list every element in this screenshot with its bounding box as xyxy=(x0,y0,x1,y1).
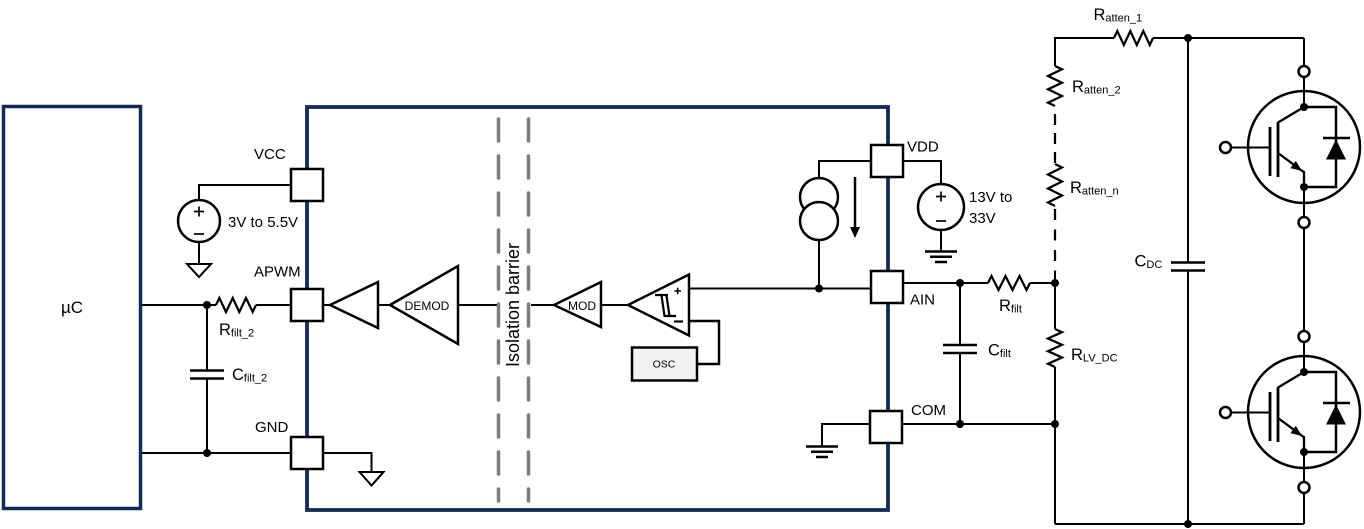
current source I1 xyxy=(819,161,871,178)
node dot H xyxy=(1051,279,1059,287)
pin APWM xyxy=(291,289,323,321)
ground triangle G2 xyxy=(360,472,384,486)
top rail wire xyxy=(1055,38,1114,66)
dashed wire segment xyxy=(1054,106,1056,164)
wire R_LV_DC to bottom rail xyxy=(1054,367,1056,524)
microcontroller box uC xyxy=(4,107,141,509)
svg-text:Ratten_n: Ratten_n xyxy=(1070,179,1119,198)
svg-text:Rfilt_2: Rfilt_2 xyxy=(219,321,254,340)
svg-text:VCC: VCC xyxy=(254,146,286,163)
voltage source V2 13V to 33V xyxy=(918,184,964,230)
svg-text:CDC: CDC xyxy=(1135,253,1163,272)
svg-text:DEMOD: DEMOD xyxy=(405,299,450,313)
comparator U1 xyxy=(628,275,689,336)
MOD amplifier xyxy=(554,282,601,327)
ground bars G3 xyxy=(925,252,957,263)
wire IGBT2 to bottom rail xyxy=(1303,493,1305,524)
wire barrier to MOD xyxy=(531,304,554,306)
plus input mark xyxy=(675,288,682,295)
wire DEMOD to barrier xyxy=(458,304,497,306)
svg-text:3V to 5.5V: 3V to 5.5V xyxy=(228,214,298,231)
resistor R_filt xyxy=(988,276,1030,290)
minus input mark xyxy=(674,320,683,322)
ground bars G4 xyxy=(806,447,838,458)
IGBT Q1 xyxy=(1220,66,1360,228)
voltage source V1 3V to 5.5V xyxy=(178,200,220,242)
node dot F xyxy=(1051,420,1059,428)
IGBT Q2 xyxy=(1220,331,1360,493)
svg-text:Isolation barrier: Isolation barrier xyxy=(503,243,523,367)
svg-text:Rfilt: Rfilt xyxy=(999,297,1022,316)
node dot B xyxy=(203,449,211,457)
node dot A xyxy=(203,301,211,309)
isolation barrier dashed line right xyxy=(527,119,531,501)
node dot D xyxy=(956,279,964,287)
wire GND pin to ground xyxy=(323,453,372,472)
resistor R_LV_DC xyxy=(1048,329,1062,367)
svg-text:MOD: MOD xyxy=(568,299,596,313)
DEMOD amplifier xyxy=(390,266,458,344)
pin GND xyxy=(291,437,323,469)
bottom rail wire xyxy=(1055,523,1304,525)
isolation barrier dashed line left xyxy=(497,119,501,501)
resistor R_atten_1 xyxy=(1114,31,1153,45)
svg-text:GND: GND xyxy=(255,419,289,436)
svg-text:APWM: APWM xyxy=(254,264,301,281)
resistor R_filt_2 xyxy=(216,298,256,312)
OSC block xyxy=(632,348,697,381)
pin VDD xyxy=(871,145,903,177)
wire between IGBTs xyxy=(1303,228,1305,331)
dashed wire segment 2 xyxy=(1054,206,1056,272)
capacitor C_filt xyxy=(959,283,961,345)
isolated amplifier IC box xyxy=(307,107,888,510)
svg-text:COM: COM xyxy=(911,402,946,419)
node dot G xyxy=(1184,34,1192,42)
wire comparator plus to AIN xyxy=(689,288,871,290)
wire R_filt to divider rail xyxy=(1030,282,1055,284)
wire VDD pin to source V2 xyxy=(903,161,941,184)
svg-text:VDD: VDD xyxy=(907,139,939,156)
wire VCC source top xyxy=(199,185,293,202)
wire comparator minus to OSC xyxy=(689,321,719,364)
node dot C xyxy=(815,285,823,293)
ground triangle G1 xyxy=(187,264,211,277)
svg-text:AIN: AIN xyxy=(910,292,935,309)
buffer amplifier xyxy=(330,282,378,328)
wire AIN to R_filt xyxy=(903,282,988,284)
wire top rail to IGBT1 xyxy=(1303,38,1305,66)
node dot I xyxy=(1184,520,1192,528)
arrow down xyxy=(854,177,857,228)
hysteresis glyph xyxy=(655,295,676,316)
svg-text:RLV_DC: RLV_DC xyxy=(1071,346,1118,365)
pin AIN xyxy=(871,271,903,303)
wire uC to GND pin xyxy=(142,452,291,454)
wire uC to APWM xyxy=(142,304,216,306)
wire MOD to comparator xyxy=(601,304,628,306)
svg-text:Cfilt: Cfilt xyxy=(988,342,1011,361)
wire source V2 to ground xyxy=(940,230,942,251)
pin COM xyxy=(870,411,902,443)
capacitor C_filt_2 xyxy=(206,305,208,370)
wire COM to divider rail xyxy=(902,423,1055,425)
pin VCC xyxy=(291,169,323,201)
wire source to ground xyxy=(198,242,200,264)
wire APWM pin to buffer xyxy=(323,304,331,306)
resistor R_atten_n xyxy=(1048,164,1062,206)
wire to AIN node xyxy=(1054,272,1056,329)
svg-text:µC: µC xyxy=(61,298,83,317)
wire R_atten_1 to HV node xyxy=(1153,37,1304,39)
svg-text:OSC: OSC xyxy=(653,359,676,371)
svg-text:Ratten_2: Ratten_2 xyxy=(1072,78,1121,97)
svg-text:Cfilt_2: Cfilt_2 xyxy=(232,366,267,385)
svg-text:13V to: 13V to xyxy=(969,189,1012,206)
node dot E xyxy=(956,420,964,428)
capacitor C_DC xyxy=(1187,38,1189,262)
wire buffer to DEMOD xyxy=(378,304,390,306)
svg-text:33V: 33V xyxy=(969,210,996,227)
wire current source to AIN net xyxy=(818,240,820,289)
svg-text:Ratten_1: Ratten_1 xyxy=(1094,6,1143,25)
resistor R_atten_2 xyxy=(1048,66,1062,106)
wire COM pin to ground xyxy=(822,424,870,446)
